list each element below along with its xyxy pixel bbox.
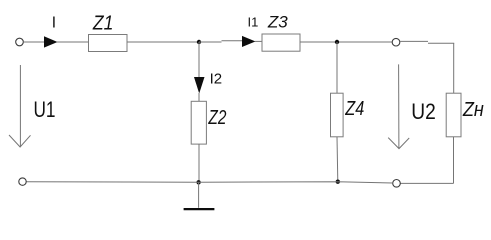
svg-text:Z4: Z4 bbox=[344, 98, 364, 120]
svg-text:I2: I2 bbox=[210, 71, 223, 88]
svg-text:Z1: Z1 bbox=[92, 13, 113, 35]
svg-text:U2: U2 bbox=[411, 99, 436, 124]
svg-text:Z3: Z3 bbox=[267, 13, 288, 32]
svg-text:Z2: Z2 bbox=[208, 107, 227, 129]
svg-text:U1: U1 bbox=[34, 97, 56, 122]
svg-text:Zн: Zн bbox=[462, 99, 484, 121]
svg-text:I1: I1 bbox=[248, 15, 259, 30]
svg-text:I: I bbox=[52, 15, 56, 32]
